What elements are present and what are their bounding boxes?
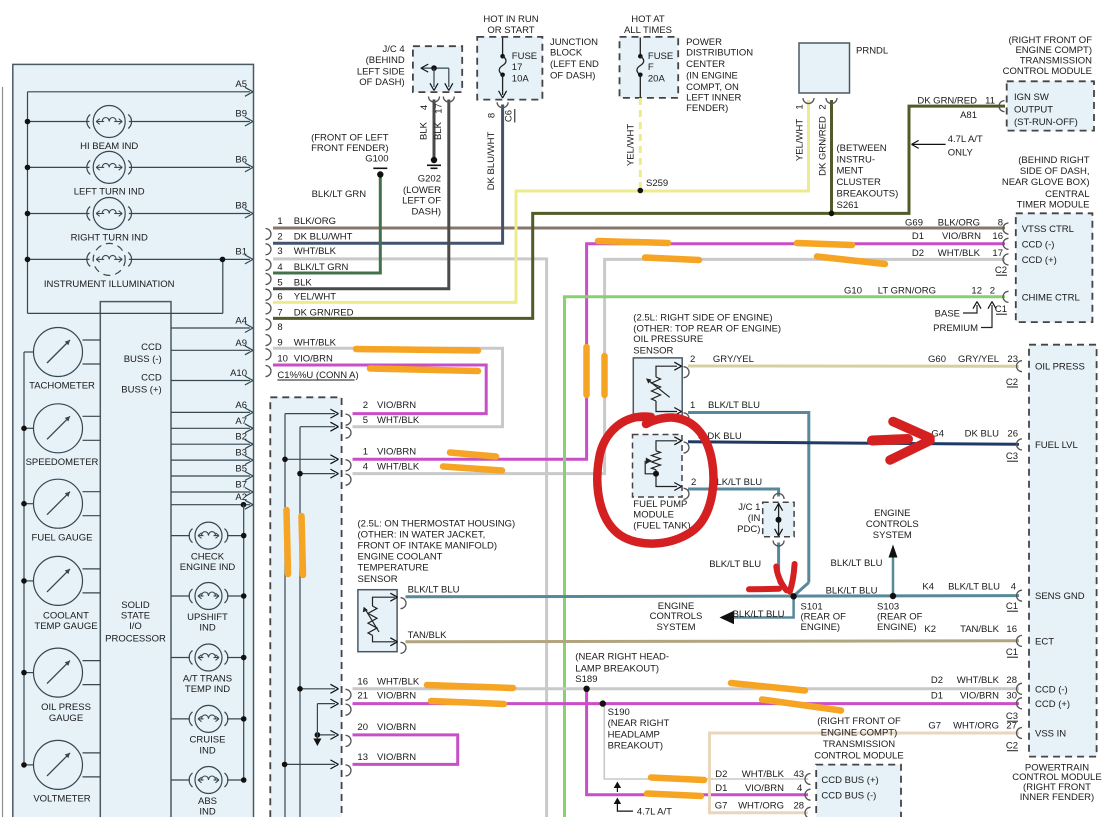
- svg-text:HOT IN RUN: HOT IN RUN: [483, 14, 538, 25]
- svg-text:SYSTEM: SYSTEM: [873, 530, 912, 541]
- svg-text:BLK: BLK: [433, 121, 444, 140]
- svg-text:PREMIUM: PREMIUM: [933, 323, 978, 334]
- svg-text:SPEEDOMETER: SPEEDOMETER: [26, 457, 99, 468]
- svg-text:GRY/YEL: GRY/YEL: [713, 354, 754, 365]
- svg-text:WHT/ORG: WHT/ORG: [953, 720, 999, 731]
- svg-text:A7: A7: [235, 416, 247, 427]
- svg-text:4: 4: [797, 783, 802, 794]
- svg-text:LEFT INNER: LEFT INNER: [686, 93, 741, 104]
- svg-text:ENGINE: ENGINE: [874, 508, 910, 519]
- svg-text:SENSOR: SENSOR: [633, 346, 673, 357]
- svg-text:16: 16: [1006, 624, 1017, 635]
- svg-text:A81: A81: [960, 110, 977, 121]
- svg-text:OUTPUT: OUTPUT: [1014, 104, 1053, 115]
- svg-text:FENDER): FENDER): [686, 103, 728, 114]
- svg-text:LEFT SIDE: LEFT SIDE: [357, 66, 405, 77]
- svg-text:C6: C6: [504, 110, 515, 122]
- svg-text:CLUSTER: CLUSTER: [837, 177, 881, 188]
- svg-text:CHECK: CHECK: [191, 551, 225, 562]
- svg-text:17: 17: [434, 103, 445, 114]
- svg-text:(IN: (IN: [748, 513, 761, 524]
- svg-text:I/O: I/O: [129, 621, 142, 632]
- svg-text:(2.5L: RIGHT SIDE OF ENGINE): (2.5L: RIGHT SIDE OF ENGINE): [633, 313, 772, 324]
- svg-text:16: 16: [357, 677, 368, 688]
- svg-text:VSS IN: VSS IN: [1035, 729, 1066, 740]
- svg-text:(OTHER: TOP REAR OF ENGINE): (OTHER: TOP REAR OF ENGINE): [633, 324, 781, 335]
- svg-text:ENGINE): ENGINE): [801, 622, 841, 633]
- svg-text:S259: S259: [646, 178, 668, 189]
- svg-text:CCD: CCD: [141, 342, 162, 353]
- svg-text:9: 9: [277, 337, 282, 348]
- svg-text:BLK/LT GRN: BLK/LT GRN: [312, 189, 367, 200]
- svg-text:HEADLAMP: HEADLAMP: [608, 729, 660, 740]
- svg-text:MENT: MENT: [837, 166, 864, 177]
- svg-text:UPSHIFT: UPSHIFT: [187, 612, 228, 623]
- svg-text:B7: B7: [235, 480, 247, 491]
- svg-text:1: 1: [277, 216, 282, 227]
- svg-text:A5: A5: [235, 79, 247, 90]
- svg-text:IGN SW: IGN SW: [1014, 92, 1049, 103]
- svg-text:SOLID: SOLID: [121, 600, 150, 611]
- svg-text:PRNDL: PRNDL: [856, 45, 888, 56]
- svg-text:S190: S190: [608, 707, 630, 718]
- svg-text:26: 26: [1007, 429, 1018, 440]
- svg-text:S189: S189: [575, 674, 597, 685]
- svg-text:VIO/BRN: VIO/BRN: [745, 783, 784, 794]
- svg-text:SIDE OF DASH,: SIDE OF DASH,: [1020, 166, 1090, 177]
- svg-text:CONTROL MODULE: CONTROL MODULE: [1003, 66, 1092, 77]
- svg-text:BLK/LT BLU: BLK/LT BLU: [948, 582, 1000, 593]
- svg-text:HOT AT: HOT AT: [631, 14, 665, 25]
- svg-text:4: 4: [363, 461, 368, 472]
- svg-text:(BEHIND RIGHT: (BEHIND RIGHT: [1018, 155, 1089, 166]
- svg-text:A4: A4: [235, 316, 247, 327]
- svg-text:J/C 1: J/C 1: [738, 502, 760, 513]
- svg-text:(BETWEEN: (BETWEEN: [837, 143, 887, 154]
- svg-text:20A: 20A: [648, 73, 666, 84]
- svg-text:ECT: ECT: [1035, 636, 1054, 647]
- svg-text:YEL/WHT: YEL/WHT: [294, 291, 336, 302]
- svg-text:C1: C1: [1006, 647, 1018, 658]
- svg-text:G10: G10: [844, 285, 862, 296]
- svg-text:BLK/LT BLU: BLK/LT BLU: [831, 558, 883, 569]
- svg-text:WHT/BLK: WHT/BLK: [294, 246, 337, 257]
- svg-text:IND: IND: [199, 745, 216, 756]
- svg-text:8: 8: [998, 217, 1003, 228]
- svg-text:PROCESSOR: PROCESSOR: [105, 633, 166, 644]
- svg-text:D2: D2: [912, 248, 924, 259]
- svg-text:(FUEL TANK): (FUEL TANK): [633, 521, 690, 532]
- svg-text:S261: S261: [837, 200, 859, 211]
- svg-text:B9: B9: [235, 109, 247, 120]
- svg-text:DK GRN/RED: DK GRN/RED: [917, 95, 977, 106]
- svg-text:(2.5L: ON THERMOSTAT HOUSING): (2.5L: ON THERMOSTAT HOUSING): [358, 519, 516, 530]
- svg-text:ONLY: ONLY: [948, 147, 974, 158]
- svg-text:WHT/BLK: WHT/BLK: [742, 769, 785, 780]
- svg-text:BLK: BLK: [419, 121, 430, 140]
- svg-text:(LEFT END: (LEFT END: [550, 59, 599, 70]
- svg-text:DK BLU: DK BLU: [965, 429, 999, 440]
- svg-text:CCD (+): CCD (+): [1035, 699, 1070, 710]
- svg-text:D2: D2: [931, 675, 943, 686]
- svg-text:CCD (-): CCD (-): [1022, 239, 1055, 250]
- svg-text:GRY/YEL: GRY/YEL: [958, 354, 999, 365]
- svg-text:FUEL PUMP: FUEL PUMP: [633, 499, 687, 510]
- svg-text:20: 20: [357, 722, 368, 733]
- svg-text:2: 2: [277, 232, 282, 243]
- svg-text:VIO/BRN: VIO/BRN: [377, 691, 416, 702]
- svg-text:4: 4: [419, 105, 430, 110]
- svg-text:CENTRAL: CENTRAL: [1045, 189, 1089, 200]
- svg-text:(OTHER: IN WATER JACKET,: (OTHER: IN WATER JACKET,: [358, 530, 486, 541]
- svg-text:BASE: BASE: [935, 308, 960, 319]
- svg-text:B2: B2: [235, 432, 247, 443]
- svg-text:POWER: POWER: [686, 37, 722, 48]
- svg-text:CONTROLS: CONTROLS: [866, 519, 919, 530]
- svg-text:FUSE: FUSE: [648, 51, 673, 62]
- svg-text:4: 4: [1011, 582, 1016, 593]
- svg-text:(BEHIND: (BEHIND: [366, 55, 405, 66]
- svg-text:BLK: BLK: [294, 277, 313, 288]
- svg-text:OIL PRESS: OIL PRESS: [1035, 362, 1085, 373]
- svg-text:BLK/LT BLU: BLK/LT BLU: [408, 585, 460, 596]
- svg-text:C1%%U (CONN A): C1%%U (CONN A): [277, 370, 358, 381]
- svg-text:LAMP BREAKOUT): LAMP BREAKOUT): [575, 664, 659, 675]
- svg-text:VIO/BRN: VIO/BRN: [377, 446, 416, 457]
- svg-text:C1: C1: [995, 304, 1007, 315]
- svg-text:(ST-RUN-OFF): (ST-RUN-OFF): [1014, 117, 1078, 128]
- svg-text:(NEAR RIGHT: (NEAR RIGHT: [608, 718, 670, 729]
- svg-text:A10: A10: [230, 368, 247, 379]
- svg-text:LEFT OF: LEFT OF: [402, 196, 441, 207]
- svg-text:SYSTEM: SYSTEM: [656, 622, 695, 633]
- svg-text:VIO/BRN: VIO/BRN: [377, 752, 416, 763]
- svg-text:CCD BUS (-): CCD BUS (-): [821, 791, 876, 802]
- svg-text:2: 2: [990, 285, 995, 296]
- svg-text:A2: A2: [235, 492, 247, 503]
- svg-text:30: 30: [1006, 690, 1017, 701]
- svg-text:B6: B6: [235, 154, 247, 165]
- svg-text:TIMER MODULE: TIMER MODULE: [1017, 199, 1090, 210]
- svg-text:1: 1: [795, 104, 806, 109]
- svg-text:WHT/BLK: WHT/BLK: [294, 337, 337, 348]
- svg-text:ABS: ABS: [198, 796, 217, 807]
- svg-text:VIO/BRN: VIO/BRN: [377, 400, 416, 411]
- svg-text:G7: G7: [715, 800, 728, 811]
- svg-text:BREAKOUT): BREAKOUT): [608, 741, 663, 752]
- svg-text:(LOWER: (LOWER: [403, 185, 441, 196]
- svg-text:STATE: STATE: [121, 611, 150, 622]
- svg-text:B5: B5: [235, 464, 247, 475]
- svg-text:A/T TRANS: A/T TRANS: [183, 673, 232, 684]
- svg-text:BLK/LT BLU: BLK/LT BLU: [709, 559, 761, 570]
- svg-text:NEAR GLOVE BOX): NEAR GLOVE BOX): [1002, 177, 1090, 188]
- svg-text:CCD: CCD: [141, 373, 162, 384]
- svg-text:4.7L A/T: 4.7L A/T: [948, 134, 983, 145]
- svg-text:12: 12: [971, 285, 982, 296]
- svg-text:ENGINE): ENGINE): [877, 622, 917, 633]
- svg-text:CONTROLS: CONTROLS: [650, 611, 703, 622]
- svg-text:28: 28: [1006, 675, 1017, 686]
- svg-text:CRUISE: CRUISE: [190, 735, 226, 746]
- svg-text:BLK/LT BLU: BLK/LT BLU: [733, 609, 785, 620]
- svg-text:COMPT, ON: COMPT, ON: [686, 82, 739, 93]
- svg-text:CHIME CTRL: CHIME CTRL: [1022, 292, 1080, 303]
- svg-text:TACHOMETER: TACHOMETER: [29, 381, 95, 392]
- svg-text:J/C 4: J/C 4: [383, 44, 405, 55]
- svg-text:F: F: [648, 62, 654, 73]
- svg-text:B1: B1: [235, 246, 247, 257]
- svg-text:DK GRN/RED: DK GRN/RED: [818, 116, 829, 176]
- svg-text:CCD (-): CCD (-): [1035, 684, 1068, 695]
- svg-text:TAN/BLK: TAN/BLK: [408, 630, 448, 641]
- svg-text:GAUGE: GAUGE: [49, 713, 83, 724]
- svg-text:IND: IND: [199, 806, 216, 817]
- svg-text:8: 8: [487, 113, 498, 118]
- svg-text:LT GRN/ORG: LT GRN/ORG: [878, 285, 936, 296]
- svg-text:VIO/BRN: VIO/BRN: [377, 722, 416, 733]
- svg-text:C2: C2: [1006, 741, 1018, 752]
- svg-text:11: 11: [985, 95, 995, 106]
- svg-text:(IN ENGINE: (IN ENGINE: [686, 71, 738, 82]
- svg-text:DASH): DASH): [411, 207, 441, 218]
- svg-text:G60: G60: [928, 354, 946, 365]
- svg-text:21: 21: [357, 691, 368, 702]
- svg-text:MODULE: MODULE: [633, 510, 674, 521]
- svg-text:8: 8: [277, 322, 282, 333]
- svg-text:LEFT TURN IND: LEFT TURN IND: [74, 187, 145, 198]
- svg-text:27: 27: [1006, 720, 1017, 731]
- svg-text:17: 17: [992, 248, 1003, 259]
- svg-text:INNER FENDER): INNER FENDER): [1020, 792, 1094, 803]
- svg-text:VIO/BRN: VIO/BRN: [294, 353, 333, 364]
- svg-text:(NEAR RIGHT HEAD-: (NEAR RIGHT HEAD-: [575, 652, 669, 663]
- svg-text:CONTROL MODULE: CONTROL MODULE: [814, 751, 903, 762]
- svg-text:SENS GND: SENS GND: [1035, 591, 1085, 602]
- svg-text:5: 5: [363, 415, 368, 426]
- svg-text:RIGHT TURN IND: RIGHT TURN IND: [71, 232, 148, 243]
- svg-text:28: 28: [794, 800, 805, 811]
- svg-text:(RIGHT FRONT OF: (RIGHT FRONT OF: [817, 716, 901, 727]
- svg-text:YEL/WHT: YEL/WHT: [795, 119, 806, 161]
- svg-text:OF DASH): OF DASH): [550, 71, 595, 82]
- svg-text:C2: C2: [1006, 377, 1018, 388]
- svg-text:ENGINE COOLANT: ENGINE COOLANT: [358, 552, 443, 563]
- svg-text:OR START: OR START: [487, 25, 534, 36]
- svg-text:BUSS (-): BUSS (-): [124, 354, 162, 365]
- svg-text:3: 3: [277, 246, 282, 257]
- svg-text:D1: D1: [912, 231, 924, 242]
- svg-text:BLK/ORG: BLK/ORG: [294, 216, 336, 227]
- svg-text:JUNCTION: JUNCTION: [550, 37, 598, 48]
- svg-text:2: 2: [818, 104, 829, 109]
- svg-text:ALL TIMES: ALL TIMES: [624, 25, 672, 36]
- svg-text:OIL PRESSURE: OIL PRESSURE: [633, 334, 703, 345]
- svg-text:C2: C2: [995, 265, 1007, 276]
- svg-text:FRONT OF INTAKE MANIFOLD): FRONT OF INTAKE MANIFOLD): [358, 541, 498, 552]
- svg-text:C1: C1: [1006, 601, 1018, 612]
- svg-text:B3: B3: [235, 448, 247, 459]
- svg-text:DK GRN/RED: DK GRN/RED: [294, 308, 354, 319]
- svg-text:K2: K2: [924, 624, 936, 635]
- svg-text:BLOCK: BLOCK: [550, 48, 583, 59]
- svg-text:WHT/ORG: WHT/ORG: [738, 800, 784, 811]
- svg-text:4: 4: [277, 262, 282, 273]
- svg-text:WHT/BLK: WHT/BLK: [377, 677, 420, 688]
- svg-text:TEMP IND: TEMP IND: [185, 684, 230, 695]
- svg-text:(RIGHT FRONT OF: (RIGHT FRONT OF: [1008, 35, 1092, 46]
- svg-text:D1: D1: [715, 783, 727, 794]
- svg-text:HI BEAM IND: HI BEAM IND: [80, 141, 138, 152]
- svg-text:FUSE: FUSE: [512, 51, 537, 62]
- svg-text:FUEL GAUGE: FUEL GAUGE: [32, 532, 93, 543]
- svg-text:B8: B8: [235, 201, 247, 212]
- svg-text:2: 2: [691, 477, 696, 488]
- svg-text:BLK/LT BLU: BLK/LT BLU: [708, 400, 760, 411]
- svg-text:TEMPERATURE: TEMPERATURE: [358, 563, 429, 574]
- svg-text:17: 17: [512, 62, 523, 73]
- svg-text:CCD BUS (+): CCD BUS (+): [821, 775, 878, 786]
- svg-text:G7: G7: [928, 720, 941, 731]
- svg-text:TRANSMISSION: TRANSMISSION: [823, 739, 895, 750]
- svg-text:43: 43: [794, 769, 805, 780]
- svg-text:BREAKOUTS): BREAKOUTS): [837, 188, 899, 199]
- svg-text:DK BLU/WHT: DK BLU/WHT: [486, 132, 497, 191]
- svg-text:1: 1: [363, 446, 368, 457]
- svg-text:FRONT FENDER): FRONT FENDER): [311, 143, 388, 154]
- svg-text:VTSS CTRL: VTSS CTRL: [1022, 224, 1074, 235]
- svg-text:K4: K4: [922, 582, 934, 593]
- svg-text:VIO/BRN: VIO/BRN: [960, 690, 999, 701]
- svg-text:16: 16: [992, 231, 1003, 242]
- svg-text:WHT/BLK: WHT/BLK: [377, 461, 420, 472]
- svg-text:TAN/BLK: TAN/BLK: [960, 624, 1000, 635]
- svg-text:INSTRU-: INSTRU-: [837, 154, 876, 165]
- svg-text:PDC): PDC): [737, 524, 760, 535]
- svg-text:(REAR OF: (REAR OF: [801, 612, 847, 623]
- svg-text:D2: D2: [715, 769, 727, 780]
- svg-text:7: 7: [277, 308, 282, 319]
- svg-text:ENGINE IND: ENGINE IND: [180, 562, 236, 573]
- svg-text:2: 2: [363, 400, 368, 411]
- svg-text:G100: G100: [365, 154, 388, 165]
- svg-text:DK BLU/WHT: DK BLU/WHT: [294, 232, 353, 243]
- svg-text:13: 13: [357, 752, 368, 763]
- svg-text:A9: A9: [235, 338, 247, 349]
- svg-text:BLK/ORG: BLK/ORG: [938, 217, 980, 228]
- svg-text:G69: G69: [905, 217, 923, 228]
- svg-text:COOLANT: COOLANT: [43, 611, 89, 622]
- svg-text:10: 10: [277, 353, 288, 364]
- svg-text:IND: IND: [199, 622, 216, 633]
- svg-text:ENGINE COMPT): ENGINE COMPT): [1015, 45, 1092, 56]
- svg-text:SENSOR: SENSOR: [358, 574, 398, 585]
- svg-text:CENTER: CENTER: [686, 59, 725, 70]
- svg-text:YEL/WHT: YEL/WHT: [626, 124, 637, 166]
- svg-text:DK BLU: DK BLU: [707, 431, 741, 442]
- svg-text:TEMP GAUGE: TEMP GAUGE: [34, 621, 97, 632]
- svg-text:OIL PRESS: OIL PRESS: [41, 702, 91, 713]
- svg-text:ENGINE COMPT): ENGINE COMPT): [821, 728, 898, 739]
- svg-text:VOLTMETER: VOLTMETER: [33, 794, 90, 805]
- svg-text:1: 1: [690, 400, 695, 411]
- svg-text:WHT/BLK: WHT/BLK: [377, 415, 420, 426]
- svg-text:WHT/BLK: WHT/BLK: [957, 675, 1000, 686]
- svg-text:G202: G202: [418, 174, 441, 185]
- svg-text:CCD (+): CCD (+): [1022, 255, 1057, 266]
- svg-text:BLK/LT BLU: BLK/LT BLU: [710, 477, 762, 488]
- svg-text:D1: D1: [931, 690, 943, 701]
- svg-text:BUSS (+): BUSS (+): [121, 385, 161, 396]
- svg-text:C3: C3: [1006, 451, 1018, 462]
- svg-text:(FRONT OF LEFT: (FRONT OF LEFT: [311, 132, 389, 143]
- svg-text:BLK/LT GRN: BLK/LT GRN: [294, 262, 349, 273]
- svg-text:5: 5: [277, 277, 282, 288]
- svg-text:10A: 10A: [512, 73, 530, 84]
- svg-text:A6: A6: [235, 400, 247, 411]
- svg-text:FUEL LVL: FUEL LVL: [1035, 440, 1078, 451]
- svg-text:TRANSMISSION: TRANSMISSION: [1020, 56, 1092, 67]
- svg-text:BLK/LT BLU: BLK/LT BLU: [826, 585, 878, 596]
- svg-text:DISTRIBUTION: DISTRIBUTION: [686, 48, 753, 59]
- svg-text:(REAR OF: (REAR OF: [877, 612, 923, 623]
- svg-text:23: 23: [1007, 354, 1018, 365]
- svg-text:4.7L A/T: 4.7L A/T: [637, 807, 672, 817]
- svg-text:INSTRUMENT ILLUMINATION: INSTRUMENT ILLUMINATION: [44, 279, 175, 290]
- svg-text:6: 6: [277, 291, 282, 302]
- svg-text:VIO/BRN: VIO/BRN: [942, 231, 981, 242]
- svg-text:WHT/BLK: WHT/BLK: [938, 248, 981, 259]
- svg-text:OF DASH): OF DASH): [359, 77, 404, 88]
- svg-text:2: 2: [690, 354, 695, 365]
